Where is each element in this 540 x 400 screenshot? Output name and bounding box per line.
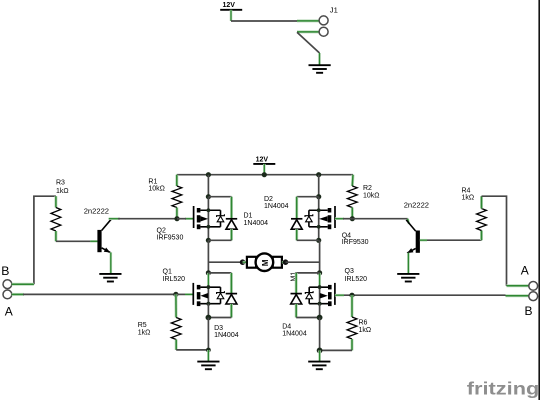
resistor R5 bottom lead: [175, 340, 178, 350]
pin lead Q4 gate: [335, 217, 344, 220]
pin lead Q6 collector: [408, 219, 409, 224]
svg-text:D2: D2: [264, 196, 273, 203]
label Q4: [342, 232, 369, 246]
svg-text:J1: J1: [330, 6, 338, 15]
connector J1 pin2: [319, 27, 328, 36]
resistor R2: [347, 186, 357, 208]
junction R5 node: [206, 348, 211, 353]
wire Q1 drain node to D3: [208, 272, 231, 274]
svg-text:10kΩ: 10kΩ: [363, 193, 380, 200]
wire Q3 source to node: [319, 304, 321, 318]
wire Q6 base to R4: [420, 239, 482, 241]
diode D2 top lead: [295, 197, 298, 219]
svg-text:1N4004: 1N4004: [214, 332, 239, 339]
wire Q1 internal vertical: [207, 285, 209, 304]
wire Q3 drain node to D4: [296, 272, 319, 274]
label A (left): [5, 305, 13, 319]
pin lead Q1 gate: [185, 293, 193, 296]
pin lead Q6 emitter: [407, 253, 410, 274]
wire motor line to Q3 drain: [319, 240, 321, 273]
resistor R3: [51, 208, 61, 232]
transistor Q5 2n2222 (left): [97, 219, 111, 252]
junction R1-gate: [174, 216, 179, 221]
junction Q3 drain: [317, 270, 322, 275]
wire A-line: [23, 293, 176, 295]
watermark fritzing: [467, 379, 540, 399]
label B (right): [525, 304, 533, 318]
diode D3 bottom lead: [230, 304, 233, 318]
wire Q1 node down: [207, 318, 209, 351]
label D4: [282, 324, 307, 338]
mosfet Q1 IRL520: [193, 283, 224, 306]
svg-text:IRL520: IRL520: [345, 276, 368, 283]
connector B (right): [529, 292, 538, 301]
resistor R4: [477, 209, 487, 231]
label M1: [290, 272, 297, 282]
svg-text:1kΩ: 1kΩ: [462, 194, 475, 201]
junction Q3 source: [318, 302, 322, 306]
wire R4 to A-right: [482, 196, 507, 286]
ground (right 2n2222): [397, 274, 419, 282]
svg-text:A: A: [5, 305, 13, 319]
wire 12V rail: [177, 174, 353, 176]
junction motor pin2: [283, 259, 289, 265]
diode D2 bottom lead: [295, 229, 298, 240]
label 2n2222 (left): [84, 207, 109, 216]
border right edge: [538, 0, 540, 400]
svg-text:R5: R5: [138, 322, 147, 329]
ground (bottom right): [308, 362, 330, 370]
wire R1 to Q2 gate: [177, 218, 186, 220]
svg-text:fritzing: fritzing: [467, 379, 540, 399]
pin lead ground right: [318, 350, 321, 361]
resistor R3 bottom lead: [54, 231, 57, 241]
junction rail-Q4: [316, 172, 321, 177]
wire R5 to Q1 source: [176, 349, 208, 351]
connector A (left): [3, 290, 12, 299]
svg-text:1kΩ: 1kΩ: [56, 188, 69, 195]
junction Q4 drain: [316, 194, 321, 199]
resistor R5 top lead: [174, 294, 177, 317]
svg-text:1kΩ: 1kΩ: [359, 327, 372, 334]
label R2: [363, 185, 380, 199]
junction rail-Q2: [206, 172, 211, 177]
svg-text:R4: R4: [462, 187, 471, 194]
resistor R1: [172, 186, 182, 208]
wire B-line up to R3: [34, 196, 56, 284]
resistor R4 top lead: [480, 196, 483, 208]
svg-text:IRL520: IRL520: [163, 276, 186, 283]
pin lead connector A left: [12, 293, 24, 296]
diode D4 top lead: [295, 273, 298, 294]
pin lead Q5 collector: [109, 217, 120, 220]
resistor R6 top lead: [351, 295, 354, 317]
wire Q2 source to motor line: [207, 240, 209, 273]
junction R6 node: [317, 348, 323, 354]
wire B-line right: [343, 294, 506, 296]
svg-text:R3: R3: [56, 179, 65, 186]
svg-text:M: M: [261, 260, 270, 267]
diode D4 bottom lead: [295, 304, 298, 318]
wire R2 to Q4 gate: [343, 218, 352, 220]
power symbol 12V (top): [220, 2, 242, 10]
label A (right): [521, 264, 529, 278]
junction Q1 source: [207, 302, 211, 306]
wire 12V-top to J1 pin1: [231, 10, 297, 21]
svg-text:D1: D1: [244, 213, 253, 220]
svg-text:R6: R6: [359, 319, 368, 326]
wire J1 pin2 to ground: [297, 32, 320, 65]
wire rail to Q2 drain: [207, 175, 209, 197]
svg-text:1N4004: 1N4004: [282, 330, 307, 337]
wire Q1 source to node: [207, 304, 209, 318]
ground (J1): [309, 65, 331, 73]
wire Q2 drain node to D1: [208, 196, 231, 198]
pin lead J1 pin1: [297, 19, 319, 22]
svg-text:10kΩ: 10kΩ: [148, 185, 165, 192]
label R5: [138, 322, 151, 336]
label D1: [244, 213, 269, 228]
svg-text:IRF9530: IRF9530: [157, 235, 184, 242]
svg-text:12V: 12V: [256, 156, 269, 163]
svg-text:Q2: Q2: [157, 228, 166, 235]
wire Q2 internal vertical: [207, 197, 209, 241]
label R6: [359, 319, 372, 333]
wire R3 to Q5 base: [56, 240, 98, 242]
diode D3 top lead: [230, 273, 233, 294]
wire motor right: [286, 261, 320, 263]
pin lead connector A right: [507, 284, 529, 287]
ground (bottom left): [197, 362, 219, 370]
svg-text:R2: R2: [363, 185, 372, 192]
junction Q1 drain: [206, 270, 211, 275]
label Q3: [345, 268, 368, 283]
svg-text:B: B: [1, 264, 9, 278]
resistor R6 bottom lead: [351, 339, 354, 350]
wire Q3 node down: [319, 318, 321, 351]
pin lead Q3 gate: [335, 294, 344, 297]
junction Q3 source node: [317, 315, 323, 321]
pin lead 12V rail: [263, 164, 266, 175]
svg-text:1kΩ: 1kΩ: [138, 330, 151, 337]
junction motor pin1: [240, 259, 246, 265]
ground (left 2n2222): [99, 274, 121, 282]
svg-text:D3: D3: [214, 325, 223, 332]
diode D3 1N4004: [226, 294, 237, 304]
pin lead Q2 gate: [185, 217, 194, 220]
pin lead Q1 drain: [207, 273, 210, 287]
resistor R2 top lead: [351, 175, 355, 186]
wire D2 to Q4 source node: [297, 239, 319, 241]
wire D4 to Q3 source node: [296, 317, 319, 319]
resistor R1 top lead: [175, 175, 178, 186]
wire D1 to Q2 source node: [208, 239, 231, 241]
junction Q2 drain: [206, 194, 211, 199]
label R1: [148, 178, 165, 192]
svg-text:Q1: Q1: [163, 268, 172, 275]
label 2n2222 (right): [404, 201, 429, 210]
wire Q4 internal vertical: [318, 197, 320, 241]
resistor R6: [347, 317, 357, 339]
pin lead ground left: [207, 350, 210, 361]
pin lead J1 pin2: [297, 30, 319, 33]
junction R2-gate: [350, 216, 355, 221]
pin lead motor pin1: [243, 261, 248, 264]
motor M1 body: [256, 253, 274, 271]
diode D4 1N4004: [291, 294, 302, 304]
pin lead connector B right: [506, 294, 529, 297]
svg-text:2n2222: 2n2222: [404, 201, 429, 210]
pin lead Q5 emitter: [110, 252, 113, 273]
label R4: [462, 187, 475, 201]
transistor Q6 2n2222 (right): [406, 220, 420, 253]
wire R2 to Q6 collector: [352, 218, 407, 220]
resistor R4 bottom lead: [480, 231, 483, 241]
wire A-line to Q1 gate: [176, 293, 186, 295]
pin lead connector B left: [12, 283, 34, 286]
junction B-line R6: [349, 293, 354, 298]
resistor R5: [171, 318, 181, 340]
label Q2: [157, 228, 184, 242]
svg-text:1N4004: 1N4004: [244, 220, 269, 227]
resistor R2 bottom lead: [351, 208, 354, 219]
label R3: [56, 179, 69, 195]
label B (left): [1, 264, 9, 278]
diode D1 1N4004: [226, 219, 237, 229]
motor M1 terminal left: [247, 257, 256, 268]
mosfet Q2 IRF9530: [194, 206, 225, 229]
diode D1 top lead: [230, 197, 233, 219]
wire Q3 internal vertical: [319, 285, 321, 304]
wire rail to Q4 drain: [318, 175, 320, 197]
label J1: [330, 6, 338, 15]
pin lead motor pin2: [282, 261, 286, 264]
diode D2 1N4004: [291, 219, 302, 229]
wire D3 to Q1 source node: [208, 317, 231, 319]
svg-text:12V: 12V: [223, 2, 236, 9]
junction Q2 source: [206, 238, 211, 243]
wire Q4 drain node to D2: [297, 196, 319, 198]
svg-text:2n2222: 2n2222: [84, 207, 109, 216]
svg-text:B: B: [525, 304, 533, 318]
wire motor left: [208, 261, 242, 263]
power symbol 12V (rail): [253, 156, 275, 164]
diode D1 bottom lead: [230, 229, 233, 240]
motor M1 terminal right: [273, 257, 282, 268]
connector J1 pin1: [319, 16, 328, 25]
svg-text:IRF9530: IRF9530: [342, 239, 369, 246]
svg-text:Q3: Q3: [345, 268, 354, 275]
junction Q1 source node: [206, 315, 212, 321]
svg-text:A: A: [521, 264, 529, 278]
label Q1: [163, 268, 186, 283]
pin lead Q3 drain: [318, 273, 321, 287]
label D3: [214, 325, 239, 339]
junction Q4 source: [316, 238, 321, 243]
connector A (right): [529, 282, 538, 291]
junction A-line R5: [173, 292, 178, 297]
connector B (left): [3, 280, 12, 289]
svg-text:R1: R1: [148, 178, 157, 185]
wire Q5 collector to R1: [118, 218, 177, 220]
resistor R3 top lead: [54, 196, 57, 207]
mosfet Q4 IRF9530: [305, 206, 335, 229]
wire R6 to Q3 source: [320, 349, 352, 351]
svg-text:1N4004: 1N4004: [264, 203, 289, 210]
mosfet Q3 IRL520: [305, 283, 335, 306]
junction rail-12V: [262, 172, 267, 177]
resistor R1 bottom lead: [175, 208, 178, 219]
label D2: [264, 196, 289, 210]
